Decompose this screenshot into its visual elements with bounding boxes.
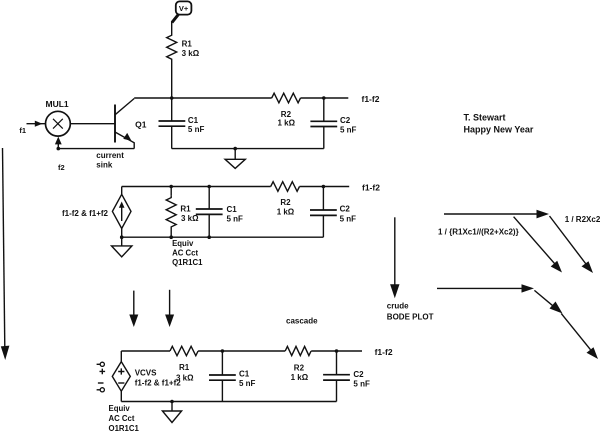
bode sketch upper diagonal from tip bbox=[550, 216, 594, 273]
wire top rail circuit3 bbox=[121, 350, 170, 352]
svg-text:3 kΩ: 3 kΩ bbox=[181, 214, 199, 223]
terminal - input bbox=[97, 383, 105, 392]
wire emitter return bbox=[58, 148, 134, 150]
svg-text:5 nF: 5 nF bbox=[340, 215, 357, 224]
bode sketch upper diagonal mid bbox=[514, 217, 562, 273]
current source f1-f2 & f1+f2 bbox=[112, 187, 131, 238]
svg-text:cascade: cascade bbox=[286, 317, 318, 326]
multiplier MUL1 bbox=[46, 111, 71, 136]
svg-text:f1-f2: f1-f2 bbox=[362, 182, 380, 192]
input f2 arrow bbox=[55, 137, 62, 149]
svg-text:BODE PLOT: BODE PLOT bbox=[387, 313, 434, 322]
bode sketch upper horizontal arrow bbox=[444, 210, 549, 219]
junction C2 top circuit3 bbox=[335, 349, 339, 353]
svg-text:1 kΩ: 1 kΩ bbox=[278, 119, 296, 128]
svg-text:VCVS: VCVS bbox=[135, 369, 157, 378]
svg-text:R2: R2 bbox=[280, 198, 291, 207]
svg-text:C1: C1 bbox=[188, 116, 199, 125]
svg-text:f1-f2 & f1+f2: f1-f2 & f1+f2 bbox=[135, 379, 182, 388]
capacitor C2 cascade bbox=[323, 351, 350, 402]
svg-text:Q1R1C1: Q1R1C1 bbox=[172, 258, 203, 267]
junction ground node bbox=[233, 147, 237, 151]
svg-text:MUL1: MUL1 bbox=[46, 99, 69, 109]
bode sketch lower diagonal 2 bbox=[561, 313, 598, 359]
wire V+ to R1 bbox=[172, 15, 179, 33]
svg-text:R1: R1 bbox=[180, 205, 191, 214]
power V+ bbox=[176, 1, 192, 14]
svg-text:C2: C2 bbox=[340, 116, 351, 125]
svg-text:V+: V+ bbox=[179, 4, 189, 13]
svg-text:sink: sink bbox=[96, 161, 113, 170]
bode sketch lower horizontal arrow bbox=[437, 284, 534, 292]
svg-text:5 nF: 5 nF bbox=[353, 380, 370, 389]
capacitor C1 bbox=[159, 98, 186, 149]
junction source bottom bbox=[120, 235, 124, 239]
svg-text:5 nF: 5 nF bbox=[340, 125, 357, 134]
cascade arrow 1 bbox=[129, 291, 138, 327]
wire collector rail bbox=[134, 97, 272, 99]
svg-text:5 nF: 5 nF bbox=[227, 214, 244, 223]
capacitor C2 bbox=[310, 98, 337, 149]
svg-text:C1: C1 bbox=[227, 205, 238, 214]
svg-text:Q1R1C1: Q1R1C1 bbox=[109, 424, 140, 431]
svg-text:T. Stewart: T. Stewart bbox=[464, 113, 506, 123]
svg-text:f1: f1 bbox=[19, 126, 26, 135]
transistor Q1 bbox=[115, 99, 134, 149]
capacitor C2 equiv bbox=[310, 187, 337, 238]
wire base bbox=[70, 123, 115, 125]
wire top rail circuit2 bbox=[122, 186, 271, 188]
svg-text:1 / {R1Xc1//(R2+Xc2)}: 1 / {R1Xc1//(R2+Xc2)} bbox=[438, 227, 519, 236]
svg-text:R1: R1 bbox=[179, 363, 190, 372]
junction C2 top circuit2 bbox=[322, 185, 326, 189]
wire R1 to C1 node bbox=[198, 350, 285, 352]
svg-text:Q1: Q1 bbox=[135, 120, 147, 130]
resistor R1 cascade bbox=[170, 346, 198, 355]
junction C2 node bbox=[322, 96, 326, 100]
svg-text:f1-f2: f1-f2 bbox=[375, 347, 393, 357]
svg-text:Happy New Year: Happy New Year bbox=[464, 125, 534, 135]
junction f2 node bbox=[57, 147, 61, 151]
input f1 arrow bbox=[27, 121, 46, 127]
svg-text:1 kΩ: 1 kΩ bbox=[277, 208, 295, 217]
svg-text:f1-f2 & f1+f2: f1-f2 & f1+f2 bbox=[62, 209, 109, 218]
cascade arrow 2 bbox=[165, 290, 174, 327]
svg-text:Equiv: Equiv bbox=[172, 239, 194, 248]
junction C1 top bbox=[207, 185, 211, 189]
node junction dot R1/collector bbox=[170, 96, 174, 100]
svg-text:C2: C2 bbox=[340, 204, 351, 213]
svg-text:3 kΩ: 3 kΩ bbox=[182, 49, 200, 58]
svg-text:current: current bbox=[96, 151, 124, 160]
bode plot arrow down bbox=[390, 217, 399, 298]
svg-text:f2: f2 bbox=[58, 163, 65, 172]
svg-text:1 kΩ: 1 kΩ bbox=[291, 373, 309, 382]
resistor R1 bbox=[167, 33, 177, 62]
junction R1 bottom bbox=[169, 235, 173, 239]
svg-text:crude: crude bbox=[387, 302, 409, 311]
junction C1 bottom bbox=[207, 235, 211, 239]
svg-text:3 kΩ: 3 kΩ bbox=[176, 373, 194, 382]
bode sketch lower diagonal 1 bbox=[534, 290, 562, 313]
wire R2 to C2 node circuit3 bbox=[311, 350, 362, 352]
svg-text:AC Cct: AC Cct bbox=[172, 249, 198, 258]
capacitor C1 equiv bbox=[196, 187, 223, 238]
junction ground circuit3 bbox=[170, 400, 174, 404]
svg-text:C1: C1 bbox=[239, 370, 250, 379]
long left arrow bbox=[1, 148, 10, 360]
resistor R2 cascade bbox=[285, 346, 311, 355]
wire bottom rail circuit3 bbox=[121, 401, 336, 403]
svg-text:R2: R2 bbox=[294, 363, 305, 372]
junction C1 top circuit3 bbox=[221, 349, 225, 353]
ground circuit3 bbox=[162, 402, 181, 423]
resistor R1 equiv bbox=[166, 187, 176, 238]
svg-text:5 nF: 5 nF bbox=[188, 125, 205, 134]
ground circuit2 bbox=[112, 237, 132, 257]
wire R1 to node bbox=[171, 62, 173, 98]
ground circuit1 bbox=[225, 149, 245, 169]
wire bottom rail circuit1 bbox=[172, 148, 324, 150]
svg-text:f1-f2: f1-f2 bbox=[362, 94, 380, 104]
wire R2 to C2 node circuit2 bbox=[300, 186, 350, 188]
junction R1 top bbox=[169, 185, 173, 189]
resistor R2 bbox=[272, 93, 301, 103]
wire bottom rail circuit2 bbox=[122, 236, 324, 238]
capacitor C1 cascade bbox=[209, 351, 236, 402]
svg-text:AC Cct: AC Cct bbox=[109, 414, 135, 423]
svg-text:R1: R1 bbox=[182, 40, 193, 49]
svg-text:Equiv: Equiv bbox=[109, 404, 131, 413]
wire R2 to C2 node bbox=[301, 97, 349, 99]
svg-text:1 / R2Xc2: 1 / R2Xc2 bbox=[565, 215, 600, 224]
terminal + input bbox=[97, 362, 106, 374]
svg-text:C2: C2 bbox=[353, 370, 364, 379]
resistor R2 equiv bbox=[271, 182, 300, 192]
svg-text:5 nF: 5 nF bbox=[239, 379, 256, 388]
source VCVS bbox=[112, 351, 130, 402]
